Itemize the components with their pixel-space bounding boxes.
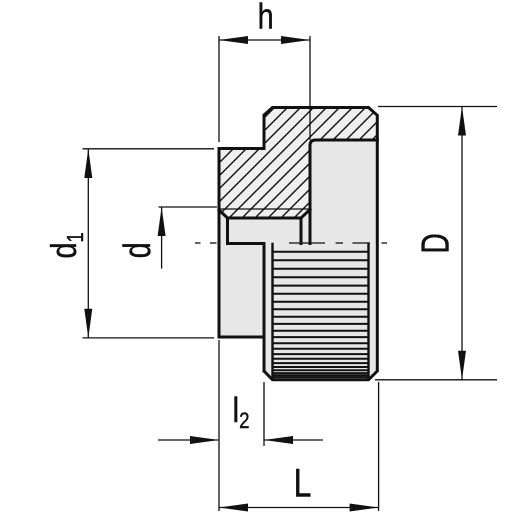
dimension d extension line: [159, 206, 218, 208]
outer profile: head with chamfers and left face line: [219, 108, 377, 380]
dimension L arrowheads: [219, 504, 379, 512]
dimension d leader line: [161, 207, 163, 269]
dimension d arrowhead: [158, 207, 166, 236]
dimension D line: [461, 107, 463, 380]
label L: [294, 460, 312, 505]
knurl end chamfer edges: [273, 244, 369, 379]
svg-text:h: h: [258, 0, 274, 36]
dimension D extension lines: [375, 107, 497, 380]
thread entry chamfers: [219, 210, 310, 219]
label h: [258, 0, 274, 36]
svg-text:d1: d1: [43, 232, 89, 258]
svg-text:d: d: [117, 242, 159, 258]
thread major diameter thin line: [219, 208, 310, 210]
dimension D arrowheads: [458, 107, 466, 380]
dimension h extension lines: [219, 36, 310, 142]
knurling lines on body diameter D: [274, 252, 368, 377]
dimension h line: [219, 39, 310, 41]
label l2: [233, 391, 250, 434]
thread bore (minor diameter): [228, 218, 302, 244]
dimension l2 arrowheads: [190, 436, 293, 444]
svg-text:D: D: [414, 233, 458, 253]
dimension L extension line: [378, 382, 380, 511]
dimension h arrowheads: [219, 36, 310, 44]
section hatching (cut upper half): [57, 90, 515, 260]
dimension l2 extension lines: [219, 340, 264, 511]
dimension L line: [219, 507, 379, 509]
label d1: [43, 232, 89, 258]
collar outline (diameter d1): [219, 149, 264, 372]
svg-text:l2: l2: [233, 391, 250, 434]
dimension d1 line: [87, 149, 89, 338]
label D: [414, 233, 458, 253]
svg-text:L: L: [294, 460, 312, 505]
centerline (axis, dash-dot): [195, 242, 387, 244]
head recess wall and ceiling: [310, 140, 377, 244]
label d: [117, 242, 159, 258]
nut body silhouette fill: [219, 108, 377, 380]
dimension d1 extension lines: [83, 149, 215, 338]
dimension d1 arrowheads: [84, 149, 92, 338]
dimension l2 lines: [158, 439, 323, 441]
